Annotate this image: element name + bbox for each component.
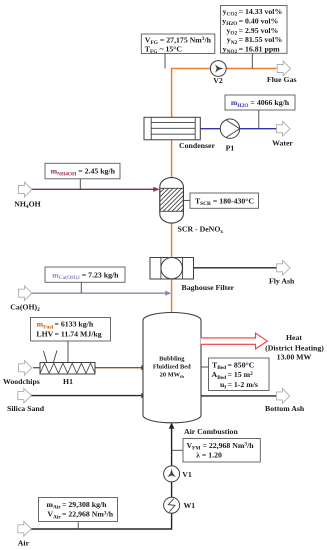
fan V1 (164, 466, 180, 482)
wire connector VFM box to air line (172, 449, 183, 451)
flue gas outlet block arrow (277, 61, 290, 76)
svg-text:Fluidized Bed: Fluidized Bed (153, 363, 191, 370)
arrowhead Ca(OH)2 into flue line (165, 291, 171, 296)
svg-text:= 0.40 vol%: = 0.40 vol% (239, 16, 279, 25)
svg-text:= 29,308 kg/h: = 29,308 kg/h (62, 500, 107, 509)
air inlet block arrow (18, 521, 31, 536)
wire connector mFuel box to H1 (67, 341, 69, 363)
wire silica sand line (31, 395, 143, 397)
wire connector y-composition box to flue line (251, 53, 253, 69)
svg-text:= 850°C: = 850°C (228, 360, 255, 369)
svg-text:Baghouse Filter: Baghouse Filter (182, 283, 235, 292)
svg-text:Water: Water (272, 139, 293, 148)
svg-text:= 1-2 m/s: = 1-2 m/s (228, 380, 258, 389)
baghouse filter (150, 258, 194, 280)
arrowhead air into bed bottom (169, 422, 175, 429)
arrowhead woodchips into bed (141, 365, 147, 370)
svg-text:W1: W1 (184, 501, 196, 510)
box mNH4OH (45, 163, 120, 179)
bottom ash outlet block arrow (276, 389, 289, 404)
water outlet block arrow (277, 121, 290, 136)
wire NH4OH line (31, 188, 154, 190)
NH4OH inlet block arrow (19, 182, 32, 197)
svg-text:= 2.95 vol%: = 2.95 vol% (239, 26, 279, 35)
screw feeder H1 (40, 350, 95, 374)
svg-text:Condenser: Condenser (179, 141, 215, 150)
box mCa(OH)2 (45, 267, 125, 282)
wire connector mAir box to air line (77, 522, 79, 530)
box y-compositions (221, 6, 288, 56)
wire connector mCa(OH)2 box (80, 282, 82, 293)
wire Ca(OH)2 line (31, 292, 166, 294)
svg-text:Ca(OH)2: Ca(OH)2 (10, 302, 40, 313)
svg-text:= 81.55 vol%: = 81.55 vol% (239, 35, 283, 44)
svg-text:Flue Gas: Flue Gas (267, 75, 297, 84)
svg-text:V1: V1 (182, 470, 192, 479)
silica sand inlet block arrow (18, 388, 31, 403)
svg-text:= 14.33 vol%: = 14.33 vol% (239, 7, 283, 16)
blower W1 (164, 497, 180, 513)
woodchips inlet block arrow (18, 360, 31, 375)
wire connector TSCR box (183, 199, 190, 201)
svg-text:= 15 m2: = 15 m2 (228, 370, 254, 379)
Ca(OH)2 inlet block arrow (19, 286, 32, 301)
box TSCR (190, 193, 259, 208)
fan V2 (210, 61, 226, 77)
svg-text:V2: V2 (213, 76, 223, 85)
svg-text:Fly Ash: Fly Ash (269, 276, 295, 285)
wire connector mNH4OH box (79, 179, 81, 190)
box mAir/VAir (39, 498, 118, 522)
arrowhead silica sand into bed (141, 393, 147, 398)
svg-text:SCR - DeNOx: SCR - DeNOx (178, 225, 224, 236)
pump P1 (220, 119, 239, 138)
svg-text:NH4OH: NH4OH (14, 199, 41, 210)
svg-text:13.00 MW: 13.00 MW (277, 352, 312, 361)
svg-text:Heat: Heat (286, 333, 302, 342)
svg-text:Woodchips: Woodchips (3, 377, 40, 386)
svg-text:(District Heating): (District Heating) (265, 343, 324, 352)
heat block arrow (red) (201, 333, 267, 349)
wire connector VFG box to flue line (164, 54, 166, 69)
svg-text:P1: P1 (226, 144, 235, 153)
box VFM / lambda (183, 439, 260, 463)
arrowhead NH4OH into SCR (153, 187, 159, 192)
svg-text:Bubbling: Bubbling (159, 355, 185, 362)
svg-text:= 16.81 ppm: = 16.81 ppm (239, 45, 281, 54)
svg-text:Bottom Ash: Bottom Ash (265, 404, 305, 413)
svg-text:Silica Sand: Silica Sand (7, 404, 45, 413)
fly ash outlet block arrow (277, 260, 290, 275)
wire woodchips line (33, 367, 143, 369)
svg-text:λ = 1.20: λ = 1.20 (196, 451, 222, 460)
SCR vessel (137, 178, 204, 223)
box TBed (209, 358, 270, 391)
svg-text:= 11.74 MJ/kg: = 11.74 MJ/kg (55, 330, 102, 339)
svg-text:Air: Air (18, 539, 30, 548)
bubbling fluidized bed vessel (143, 312, 201, 422)
wire fly ash line (194, 267, 277, 269)
wire connector TBed box (201, 366, 209, 368)
svg-text:LHV: LHV (36, 330, 53, 339)
box VFG/TFG (141, 34, 215, 55)
svg-text:Air Combustion: Air Combustion (184, 427, 238, 436)
box mFuel/LHV (31, 318, 111, 342)
wire connector mH2O box to water line (258, 110, 260, 129)
wire air line bottom (31, 429, 172, 530)
wire water line (200, 128, 276, 130)
svg-text:= 22,968 Nm3/h: = 22,968 Nm3/h (62, 510, 114, 519)
condenser (144, 117, 200, 140)
svg-text:= 6133 kg/h: = 6133 kg/h (55, 320, 94, 329)
svg-text:H1: H1 (63, 377, 73, 386)
wire flue gas main orange line (172, 69, 277, 314)
wire bottom ash line (201, 395, 276, 397)
box mH2O (225, 95, 295, 110)
